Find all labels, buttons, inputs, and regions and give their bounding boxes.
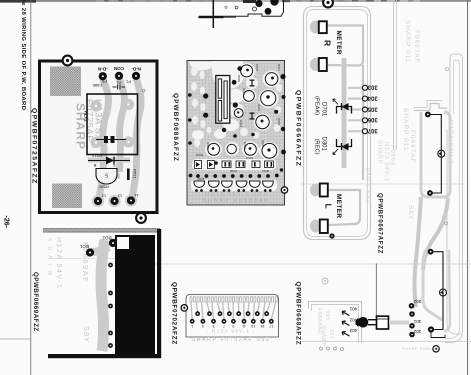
svg-text:RLY2: RLY2 <box>84 111 89 122</box>
scattered black pads <box>188 66 286 165</box>
top board pad A <box>255 0 262 7</box>
pads 303-307 <box>363 85 368 90</box>
svg-text:R: R <box>323 40 333 46</box>
board QPWBF0669AFZZ <box>43 228 161 358</box>
svg-text:SHARP F0688AF: SHARP F0688AF <box>202 198 269 204</box>
svg-text:C612: C612 <box>239 120 243 128</box>
svg-text:-D-N: -D-N <box>97 67 107 72</box>
trace vertical mid <box>362 65 364 180</box>
page divider line <box>30 0 32 375</box>
svg-text:C618: C618 <box>243 142 247 150</box>
diode D512 <box>88 160 130 162</box>
pad B2 <box>428 326 434 332</box>
small hole <box>142 89 145 92</box>
svg-text:METER: METER <box>335 31 342 55</box>
board QPWBF0702AFZZ <box>181 295 278 344</box>
mounting hole top <box>323 0 333 7</box>
svg-text:SHARP F0667AF: SHARP F0667AF <box>402 346 440 351</box>
svg-text:BO2: BO2 <box>102 236 112 241</box>
svg-text:C622: C622 <box>246 156 254 160</box>
svg-text:302: 302 <box>413 329 421 334</box>
mounting hole top <box>63 56 73 66</box>
lamp body <box>356 319 358 326</box>
board5 trace band <box>101 240 105 351</box>
connector finger row <box>190 297 277 302</box>
svg-text:SHARP: SHARP <box>320 325 326 346</box>
svg-text:QPWBF0669AFZZ: QPWBF0669AFZZ <box>32 272 39 332</box>
pad 302 top <box>409 303 415 309</box>
svg-text:011: 011 <box>328 329 334 339</box>
leader line from fold <box>375 264 377 317</box>
meter L pad bottom <box>320 220 328 234</box>
svg-text:D701: D701 <box>321 102 327 117</box>
svg-text:F0666: F0666 <box>389 145 395 166</box>
bottom pad 12 <box>94 197 102 205</box>
tiny hole <box>445 222 448 225</box>
svg-text:17: 17 <box>269 324 273 328</box>
board QPWBF0666AFZZ <box>304 0 396 239</box>
svg-text:D512: D512 <box>91 154 101 159</box>
svg-text:H12A 94V-1: H12A 94V-1 <box>55 237 62 289</box>
pad -D-N- <box>99 72 107 80</box>
trace ring around jumper A <box>421 112 450 197</box>
lamp leads <box>368 319 377 321</box>
svg-text:-26-: -26- <box>3 216 10 229</box>
lamp socket box <box>377 316 389 329</box>
relay pad 3 <box>90 137 101 148</box>
svg-text:5: 5 <box>212 324 214 328</box>
svg-text:H12A 94V-1: H12A 94V-1 <box>447 120 454 165</box>
svg-text:R521: R521 <box>133 169 138 179</box>
svg-text:C607: C607 <box>255 64 259 72</box>
mid row diode marks <box>196 162 272 167</box>
svg-text:(PEAK): (PEAK) <box>314 96 320 115</box>
transistor inner marks <box>212 69 274 152</box>
svg-text:H12A 94V-1: H12A 94V-1 <box>383 142 389 182</box>
jumper run B <box>431 252 443 330</box>
LED D301 symbol <box>337 139 352 150</box>
arrow 401 <box>342 311 350 316</box>
trace S band mid <box>423 198 448 270</box>
trace teardrop R top <box>310 21 321 34</box>
svg-text:H13A 94V-1 SXX: H13A 94V-1 SXX <box>205 191 268 197</box>
svg-text:D301: D301 <box>321 137 327 152</box>
svg-text:F0667AF: F0667AF <box>409 130 416 164</box>
svg-text:P5: P5 <box>101 79 107 84</box>
top board open pad <box>253 7 257 11</box>
test point T lower <box>440 289 447 296</box>
board3 bottom pad <box>329 233 334 238</box>
svg-text:A D A I W: A D A I W <box>46 238 52 277</box>
white teardrop column <box>191 67 282 147</box>
svg-text:13: 13 <box>118 194 122 198</box>
hatch block top-left <box>50 67 81 97</box>
svg-text:P1: P1 <box>125 80 131 85</box>
svg-text:R644: R644 <box>230 169 238 173</box>
svg-text:R615: R615 <box>257 104 261 112</box>
board4 left edge traces <box>393 0 395 150</box>
svg-text:306: 306 <box>367 116 378 122</box>
svg-text:94V-1 S3Z: 94V-1 S3Z <box>364 168 370 204</box>
top board pad C <box>265 8 272 15</box>
board5 bottom edge <box>48 354 161 358</box>
pads upper row <box>195 311 269 316</box>
trace lower right loop <box>447 130 462 334</box>
svg-text:301: 301 <box>413 319 421 324</box>
svg-text:14: 14 <box>134 193 138 197</box>
svg-text:N-D-: N-D- <box>131 67 141 72</box>
connector block <box>115 235 155 354</box>
trace meter R loop <box>327 26 363 66</box>
board1 outline <box>40 61 158 213</box>
top board pad B <box>270 0 278 6</box>
meter R pad bottom <box>319 58 327 71</box>
pad N-D- <box>132 72 140 80</box>
svg-text:303: 303 <box>367 84 378 90</box>
svg-text:Q606: Q606 <box>261 140 265 148</box>
svg-text:F0667AF: F0667AF <box>413 30 420 64</box>
svg-text:SHARP 011: SHARP 011 <box>404 20 411 63</box>
trace meter L loop <box>327 190 360 225</box>
board QPWBF0667AFZZ <box>394 0 463 352</box>
svg-text:CON: CON <box>113 66 124 71</box>
svg-text:304: 304 <box>367 94 378 100</box>
svg-text:P2: P2 <box>116 80 122 85</box>
relay pad 2 <box>123 99 134 110</box>
pad B1 <box>428 249 434 255</box>
pad A1 <box>425 112 431 118</box>
svg-text:- H13A 94V-1 -: - H13A 94V-1 - <box>207 329 256 335</box>
board QPWBF0688AFZZ <box>187 61 288 206</box>
svg-text:R620: R620 <box>206 142 210 150</box>
svg-text:302: 302 <box>413 299 421 304</box>
svg-text:BO1: BO1 <box>79 244 89 249</box>
LED D701 symbol <box>337 103 352 114</box>
svg-text:(REC): (REC) <box>314 139 320 155</box>
svg-text:11: 11 <box>242 324 246 328</box>
board QPWBF0725AFZZ <box>40 56 158 223</box>
bullseye right of board2 <box>281 187 287 193</box>
svg-text:L: L <box>324 204 334 209</box>
svg-text:R640: R640 <box>196 153 204 157</box>
svg-text:R611: R611 <box>277 64 281 71</box>
svg-text:401: 401 <box>349 307 357 312</box>
board4 right edge trace <box>445 54 463 343</box>
svg-text:9: 9 <box>232 324 234 328</box>
top partial board outline <box>199 0 284 28</box>
pads lower row <box>190 319 274 324</box>
dots row <box>189 168 284 178</box>
test point T upper <box>438 150 445 157</box>
board QPWBF0668AFZZ <box>309 264 410 351</box>
svg-text:S8Y: S8Y <box>82 326 91 343</box>
white clearance blobs <box>189 61 281 191</box>
fan traces <box>191 302 276 319</box>
svg-text:SHARP 011: SHARP 011 <box>402 108 409 151</box>
svg-text:403: 403 <box>349 328 357 333</box>
trace horizontals <box>88 158 130 163</box>
svg-text:7: 7 <box>223 324 225 328</box>
trace from pad1 <box>99 78 108 198</box>
svg-text:C604: C604 <box>242 88 246 96</box>
board3 outer trace outline <box>304 7 371 240</box>
svg-text:SHARP: SHARP <box>376 140 382 165</box>
bottom pad 14 <box>127 196 135 204</box>
relay pad 4 <box>123 136 134 147</box>
arrow 403 <box>342 332 350 337</box>
top scan streak <box>0 0 471 2</box>
svg-text:QPWBF0702AFZZ: QPWBF0702AFZZ <box>171 282 178 345</box>
svg-text:QPWBF0667AFZZ: QPWBF0667AFZZ <box>377 193 384 254</box>
board4 corner notch <box>431 332 445 338</box>
registration cross vertical <box>212 0 214 28</box>
top board tiny hole <box>235 6 238 9</box>
mounting hole bottom <box>136 213 146 223</box>
connector pads column <box>108 263 113 268</box>
faint mounting hole <box>322 278 328 284</box>
svg-text:15: 15 <box>261 324 265 328</box>
svg-text:307: 307 <box>367 127 378 133</box>
svg-text:C580: C580 <box>92 83 102 88</box>
board7 faint outline <box>309 302 362 344</box>
right page edge line <box>467 0 469 375</box>
trace step top <box>414 104 447 111</box>
trace from pad2 <box>119 77 124 172</box>
board6 outline <box>186 295 279 338</box>
jumper run A <box>428 115 441 194</box>
svg-text:B: B <box>93 163 96 168</box>
svg-text:R603: R603 <box>237 75 241 83</box>
board5 right edge <box>157 229 161 358</box>
relay RLY2 outline <box>87 94 138 155</box>
pad 302b <box>409 332 415 338</box>
bottom dots under semicircles <box>195 189 272 192</box>
mounting hole bottom-right <box>433 346 439 352</box>
svg-text:QPWBF0668AFZZ: QPWBF0668AFZZ <box>295 282 302 346</box>
trace ring around jumper B <box>423 250 442 320</box>
pad mid <box>409 311 415 317</box>
trace pads column link <box>342 58 347 168</box>
registration cross horizontal <box>199 16 237 18</box>
fold line y339 <box>0 338 30 340</box>
mounting hole left <box>181 305 187 311</box>
board2 base <box>187 61 285 206</box>
meter L pad top <box>320 184 328 197</box>
hatch block bottom-left <box>52 184 82 209</box>
svg-text:5: 5 <box>105 172 108 178</box>
trace right of socket <box>389 321 409 325</box>
tiny ref-des speckle text <box>196 64 281 181</box>
pad CON <box>115 72 123 80</box>
svg-text:1: 1 <box>191 324 193 328</box>
capacitor I-beam symbols <box>250 80 255 120</box>
svg-text:Q604: Q604 <box>277 118 281 126</box>
pad BO2 <box>109 239 117 247</box>
svg-text:13: 13 <box>251 324 255 328</box>
svg-text:S8Y: S8Y <box>407 205 414 220</box>
bottom pad halos <box>92 195 104 207</box>
svg-text:SHARP F0702AF S9Z: SHARP F0702AF S9Z <box>191 337 270 343</box>
mid row component outlines <box>195 161 274 169</box>
bottom pad 13 <box>110 197 118 205</box>
svg-text:QPWBF0725AFZZ: QPWBF0725AFZZ <box>31 108 38 185</box>
board5 top torn edge <box>43 228 160 233</box>
pad A2 <box>427 190 433 196</box>
svg-text:Q608: Q608 <box>197 177 205 181</box>
trace from pad3 <box>132 77 141 198</box>
relay pad 1 <box>90 100 101 111</box>
svg-text:QPWBF0688AFZZ: QPWBF0688AFZZ <box>172 93 179 162</box>
svg-text:QPWBF0666AFZZ: QPWBF0666AFZZ <box>295 90 302 167</box>
capacitor C580 symbol <box>113 85 126 90</box>
pad BO1 <box>86 248 94 256</box>
relay coil symbol <box>96 139 126 141</box>
transistor circles <box>208 65 278 158</box>
resistor R521 <box>127 169 130 181</box>
fold line y264 <box>48 258 120 260</box>
meter R pad top <box>319 21 327 33</box>
svg-text:ure 28 WIRING SIDE OF P.W.: ure 28 WIRING SIDE OF P.W. BOARD <box>20 0 26 110</box>
transistor Q5 outline <box>96 169 117 185</box>
svg-text:305: 305 <box>367 105 378 111</box>
svg-text:C625: C625 <box>262 169 270 173</box>
pad number labels <box>191 324 273 328</box>
svg-text:3: 3 <box>202 324 204 328</box>
svg-text:12: 12 <box>102 194 106 198</box>
pad 301 <box>409 323 415 329</box>
svg-text:METER: METER <box>335 194 342 218</box>
bottom transistor semicircles <box>194 181 273 187</box>
bottom tiny pads <box>320 347 323 350</box>
svg-text:R520: R520 <box>98 185 108 190</box>
IC U1 <box>216 76 230 124</box>
fold line y184 right <box>300 183 465 185</box>
svg-text:09Y: 09Y <box>324 310 330 321</box>
arrow 402 <box>342 321 350 326</box>
